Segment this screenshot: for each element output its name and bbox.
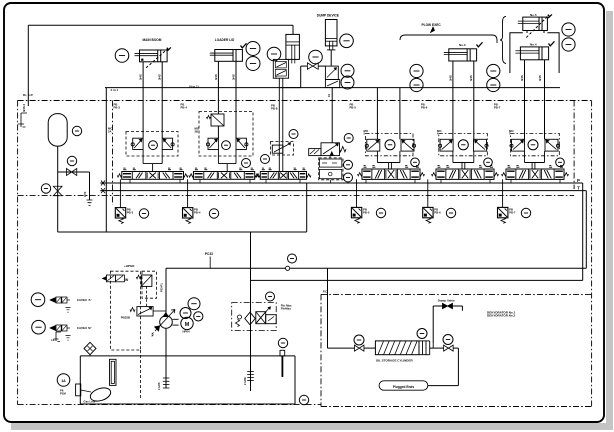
svg-text:3/4S: 3/4S [469, 75, 473, 81]
assembly A2 counterbalance [199, 112, 253, 157]
label PB33B [121, 316, 130, 320]
valve V3 directional [256, 168, 311, 179]
balloon CAVEX A [31, 293, 45, 307]
wire VA feed down [279, 78, 283, 171]
assembly A1 counterbalance [126, 132, 178, 157]
svg-text:PB-3: PB-3 [127, 210, 134, 214]
svg-text:PB-7: PB-7 [494, 105, 501, 109]
wire feed to valve B3 [328, 347, 355, 349]
wire PB-7 feed [502, 179, 504, 207]
wire relief to pump line [153, 310, 166, 312]
label suction rotated [157, 382, 161, 390]
reservoir tank [80, 356, 295, 404]
label 4in1 b [189, 85, 199, 89]
valve PB-7 solenoid [498, 207, 508, 223]
port label PB pair x181 [181, 103, 188, 110]
balloon 1 left of CYL1 [115, 49, 129, 63]
label A1 [108, 127, 113, 134]
wire valve stub 8 [440, 179, 442, 183]
wire manifold top line [105, 87, 560, 89]
balloon right of A4 top [344, 134, 353, 143]
cylinder VCB dump device [325, 20, 337, 50]
label DUMP DEVICE [317, 14, 339, 18]
svg-text:PB-5: PB-5 [350, 105, 357, 109]
boundary vertical x574 dash-dot [573, 101, 575, 190]
wire VCB rod down [330, 50, 332, 66]
balloon near V2 [242, 159, 251, 168]
cartridge valve HPGR [102, 275, 129, 282]
svg-text:M: M [185, 322, 190, 328]
port label PB pair x421 [421, 103, 428, 110]
svg-text:3/4S: 3/4S [520, 75, 524, 81]
wire CYL3 port B [473, 61, 475, 139]
cylinder CYL2 loader lid [210, 50, 243, 62]
tank wall port [76, 384, 81, 396]
valve bowtie B2 on vertical [53, 186, 62, 196]
dashed drain into tank [140, 350, 142, 399]
svg-text:3/4S: 3/4S [158, 74, 162, 80]
wire valve stub 10 [510, 179, 512, 183]
breather diamond [84, 342, 96, 354]
balloon pair right of CYL3 a [487, 64, 500, 77]
valve bowtie B3 [354, 345, 364, 351]
balloon above node [288, 254, 297, 263]
dehydrator DH1 [375, 341, 429, 355]
wire top supply line [28, 24, 293, 26]
wire CYL1 port A [142, 62, 144, 138]
drop shadow bottom [11, 423, 606, 430]
wire CYL4 port B [544, 60, 546, 140]
label 1S rotated VA [274, 76, 278, 79]
balloon PB-5 [376, 208, 385, 217]
wire pump suction [165, 328, 167, 388]
wire CYL3 port A [452, 61, 454, 139]
label 3/4S left rotated [22, 103, 26, 112]
svg-text:4 in 1: 4 in 1 [111, 88, 119, 92]
svg-text:LOADER LID: LOADER LID [215, 38, 235, 42]
valve V1 directional [117, 168, 188, 179]
balloon left of valve block VA [267, 47, 281, 61]
balloon pair right of CYL2 b [246, 57, 260, 71]
drop shadow right [606, 11, 613, 430]
wire valve stub 7 [414, 179, 416, 183]
node gauge port circle [286, 266, 290, 270]
svg-text:Dr. E.P.: Dr. E.P. [23, 93, 33, 97]
label Dr E.P. [23, 93, 33, 97]
cylinder CYL1 main boom [135, 50, 168, 62]
balloon right of A4 a [344, 160, 353, 169]
valve PB-5 solenoid [351, 207, 361, 223]
svg-text:(4 in 1): (4 in 1) [189, 85, 199, 89]
svg-text:PB-7: PB-7 [509, 210, 516, 214]
label P6 P1M [60, 389, 66, 396]
svg-text:No.3: No.3 [459, 43, 466, 47]
label A5 [364, 129, 369, 136]
svg-text:PB-6: PB-6 [421, 105, 428, 109]
filter F2 double rect [110, 359, 117, 385]
wire valve stub 5 [299, 179, 301, 183]
wire plow feed A [376, 88, 378, 140]
wire valve stub 9 [489, 179, 491, 183]
wire drain drop [89, 172, 91, 200]
svg-text:DUMP DEVICE: DUMP DEVICE [317, 14, 339, 18]
balloon right of A4 b [344, 173, 353, 182]
balloon tank right [299, 395, 308, 404]
suction diffuser ticks [163, 378, 170, 388]
wire PC33 main line [166, 267, 586, 269]
balloon right of VB upper [341, 64, 354, 77]
svg-text:Gas Line: Gas Line [83, 400, 95, 404]
label LOADER LID [215, 38, 235, 42]
pump coupling [173, 319, 179, 325]
svg-text:2B: 2B [195, 129, 199, 133]
valve bowtie shutoff B1 [66, 169, 76, 176]
port label PB pair x349 [350, 103, 357, 110]
pilot check valve on CYL2 port A [207, 114, 225, 126]
balloon pair right of group a [562, 23, 575, 36]
label No.4 [530, 42, 537, 46]
label Gas Line [83, 400, 95, 404]
check arrow CYL2 [241, 43, 247, 48]
dash-dot box dehydrator bottom [321, 406, 592, 408]
check arrow CYL3 [477, 42, 483, 47]
svg-text:P: P [577, 178, 580, 183]
balloon above DH1 [417, 329, 427, 339]
svg-text:MAIN BOOM: MAIN BOOM [143, 38, 162, 42]
wire return drop x250 [250, 232, 252, 391]
balloon pair right of CYL3 b [487, 78, 500, 91]
wire valve stub 1 [179, 179, 181, 183]
wire valve stub 6 [365, 179, 367, 183]
wire valve stub 4 [265, 179, 267, 183]
label CAVEX B [77, 326, 92, 330]
wire T rail drop [585, 191, 587, 269]
label 3/4S port A3 [448, 75, 452, 81]
callout bracket plow [400, 27, 497, 43]
balloon above B3 [354, 335, 364, 345]
svg-text:PB-4: PB-4 [194, 210, 201, 214]
label PB-7 [509, 208, 516, 215]
balloon right of ACC1 [72, 126, 81, 135]
wire V4 stem [329, 156, 331, 158]
assembly A5 counterbalance [365, 133, 415, 155]
label PB-3 [127, 208, 134, 215]
balloon above filter [266, 292, 275, 301]
balloon CAVEX B [32, 320, 46, 334]
accumulator ACC1 [48, 114, 67, 147]
wire PB-4 feed [187, 179, 189, 207]
wire DH1 to valve B4 [430, 347, 444, 349]
wire CYL4 port A [524, 60, 526, 140]
balloon level gauge [278, 338, 287, 347]
wire PB-3 feed [119, 179, 121, 207]
svg-text:P33-P1: P33-P1 [160, 283, 164, 292]
pump suction arrow [152, 326, 160, 337]
wire dump valve right [453, 306, 463, 311]
wire left inner vertical [27, 25, 29, 106]
svg-text:+HPGR: +HPGR [124, 264, 135, 268]
label No.3 [459, 43, 466, 47]
label 3/4S port B1 [158, 74, 162, 80]
wire P line lower [251, 279, 583, 281]
drain bracket mid [87, 200, 93, 205]
dashed box HPGR [142, 271, 157, 298]
wire valve stub 11 [559, 179, 561, 183]
wire pump riser [165, 268, 167, 315]
label DEHYDRATOR [487, 311, 516, 318]
label 3/4S port B4 [538, 75, 542, 81]
rail start tick T [101, 188, 105, 193]
wire CYL5 stub B [543, 31, 545, 34]
label P.C. [323, 290, 328, 294]
svg-text:1S: 1S [274, 76, 278, 79]
check arrow CYL4 [549, 41, 555, 46]
label 3/4S port A4 [520, 75, 524, 81]
svg-text:No.4: No.4 [530, 42, 537, 46]
port label PB pair x115 [114, 103, 121, 110]
test point CAVEX A [50, 297, 70, 303]
dash-dot box dehydrator top [321, 293, 592, 295]
label return rotated [243, 377, 247, 385]
cylinder CYL4 [515, 47, 548, 60]
balloon near V5 [411, 158, 420, 167]
label Fltr Max [281, 304, 292, 311]
wire P rail [100, 182, 582, 184]
svg-text:CAVEX 'A': CAVEX 'A' [77, 298, 92, 302]
wire V5 T-bar [377, 151, 400, 169]
arrow diagonal through CYL1 [141, 47, 171, 67]
wire V1 T-bar [143, 150, 162, 172]
enclosure boundary left dash-dot [17, 101, 19, 405]
label PB-5 [363, 208, 370, 215]
gauge circle 1A [57, 374, 70, 387]
balloon above shutoff bowtie [309, 50, 323, 64]
valve V2 directional [189, 168, 259, 179]
test point CAVEX B [50, 325, 70, 331]
bracket LE [51, 332, 61, 342]
balloon pair left of CYL3 b [410, 78, 423, 91]
rail start tick P [101, 181, 105, 186]
wire V7 T-bar [525, 151, 545, 169]
valve HPGR square [136, 275, 152, 286]
svg-text:3/4S: 3/4S [83, 191, 87, 197]
dashed box relief [111, 271, 141, 350]
cylinder CYL3 [444, 49, 477, 61]
wire jog VA to bowtie [281, 66, 308, 88]
balloon pump c [194, 312, 203, 321]
svg-text:3/4S: 3/4S [538, 75, 542, 81]
filter outlet box [266, 315, 277, 324]
wire valve stub 2 [199, 179, 201, 183]
valve PB-4 solenoid [183, 208, 193, 224]
wire V2 T-bar [218, 150, 236, 172]
wire A4 box stub [330, 180, 332, 183]
drain bracket CAVEX B [66, 335, 71, 340]
balloon PB-7 [521, 208, 530, 217]
label P [577, 178, 580, 183]
wire valve stub 0 [129, 179, 131, 183]
level gauge [280, 350, 285, 377]
wire PB-5 feed [356, 179, 358, 207]
svg-text:PB33B: PB33B [121, 316, 130, 320]
balloon pump a [188, 298, 200, 310]
label P33 rotated [160, 283, 164, 292]
shutoff valve bowtie top [307, 63, 318, 70]
label CAVEX A [77, 298, 92, 302]
svg-text:2 1/2R: 2 1/2R [243, 377, 247, 385]
balloon PB-4 [209, 209, 218, 218]
wire plow feed B [399, 88, 401, 140]
balloon right of VB lower [341, 76, 354, 89]
wire B3 to dehydrator [364, 347, 376, 349]
label Dump Valve [438, 298, 455, 302]
node circle filter [238, 315, 242, 319]
balloon near V7 [556, 158, 565, 167]
wire P elbow riser [306, 183, 308, 232]
wire CYL2 port A lower [217, 126, 219, 138]
balloon right of VCB [340, 34, 354, 48]
svg-text:PLOW EXEC: PLOW EXEC [422, 23, 442, 27]
label +HPGR [124, 264, 135, 268]
label A6 [437, 129, 442, 136]
balloon PB-6 [446, 208, 455, 217]
balloon pump b [180, 308, 191, 319]
wire PB-6 feed [427, 179, 429, 207]
label 3/4S port B3 [469, 75, 473, 81]
valve V6 directional [432, 166, 499, 180]
label 3/4S port A2 [214, 74, 218, 80]
wire bowtie to block B [318, 65, 325, 67]
assembly A6 counterbalance [439, 133, 489, 155]
svg-text:Dump Valve: Dump Valve [438, 298, 455, 302]
port label PB pair x494 [494, 103, 501, 110]
svg-text:LE: LE [51, 338, 55, 342]
valve block VB lower [325, 80, 339, 88]
balloon pair left of CYL3 a [410, 64, 423, 77]
label PC33 [205, 252, 213, 256]
wire drop to vertical cylinder A [292, 25, 294, 34]
balloon above A3 [289, 130, 298, 139]
svg-text:3/4S: 3/4S [448, 75, 452, 81]
svg-text:3/4S: 3/4S [231, 74, 235, 80]
label drain rotated [83, 191, 87, 197]
label No.5 [530, 13, 537, 17]
wire branch to drain [58, 171, 90, 173]
drain bracket CAVEX A [66, 307, 71, 312]
label PB-6 [434, 208, 441, 215]
valve V4 spool [309, 143, 346, 156]
label PLOW EXEC [422, 23, 442, 27]
return diffuser ticks [247, 372, 254, 381]
wire CYL2 port A [217, 61, 219, 114]
svg-text:3/4S 2: 3/4S 2 [22, 103, 26, 112]
balloon near V6 [484, 158, 493, 167]
capsule Plugged Ends [379, 381, 428, 390]
balloon pair right of group b [562, 38, 575, 51]
svg-text:CAVEX 'B': CAVEX 'B' [77, 326, 92, 330]
balloon PB-3 [139, 209, 148, 218]
balloon above B4 [443, 335, 453, 345]
svg-text:1A: 1A [61, 379, 66, 383]
wire ACC1 down [57, 146, 59, 232]
arrow diagonal through CYL5 [526, 14, 552, 37]
balloon pair right of CYL2 a [246, 42, 260, 56]
valve V5 directional [358, 166, 425, 180]
valve PB-6 solenoid [423, 207, 433, 223]
svg-text:P1M: P1M [60, 391, 66, 395]
label HP04 [183, 330, 190, 334]
balloon left of A3 [261, 155, 270, 164]
motor M1 [181, 317, 193, 329]
svg-text:2A: 2A [108, 129, 112, 133]
suction strainer oval [81, 386, 113, 404]
balloon left of B2 [41, 184, 50, 193]
box around CYL4 [510, 33, 559, 73]
relief valve RV1 [130, 307, 153, 316]
svg-text:3/4S: 3/4S [139, 74, 143, 80]
boundary bottom-left dash-dot [18, 404, 321, 406]
wire T rail [100, 190, 586, 192]
svg-text:T: T [577, 186, 580, 191]
valve block VA [273, 59, 288, 78]
enclosure boundary mid dash-dot [18, 195, 575, 197]
cylinder VCA vertical [286, 34, 300, 63]
label 3/4S port B2 [231, 74, 235, 80]
balloon above B1 [67, 156, 76, 165]
wire manifold left vertical [105, 88, 107, 232]
label OIL STORAGE [376, 359, 414, 363]
wire P rail drop [582, 183, 584, 280]
pump P1 variable [155, 310, 175, 332]
svg-text:PC33: PC33 [205, 252, 213, 256]
label MAIN BOOM [143, 38, 162, 42]
svg-text:FltrMax: FltrMax [281, 306, 291, 310]
dash-dot box filter [232, 303, 277, 331]
wire CYL1 port B [161, 62, 163, 138]
drain bracket left [18, 113, 27, 127]
label 1S rotated VB [327, 94, 331, 97]
svg-text:1S: 1S [327, 94, 331, 97]
svg-text:2 1/2S: 2 1/2S [157, 382, 161, 390]
wire CYL5 stub A [526, 31, 528, 34]
enclosure boundary top dash-dot [18, 100, 592, 102]
label A2 [195, 127, 200, 134]
svg-text:Plugged Ends: Plugged Ends [393, 385, 414, 389]
filter bypass valve [256, 307, 271, 324]
brace left of cyl group [500, 16, 506, 63]
label A7 [509, 129, 514, 136]
valve block VB upper [325, 66, 338, 79]
wire PC33 label tick [209, 257, 211, 269]
filter spring [236, 320, 240, 327]
svg-text:PB-4: PB-4 [181, 105, 188, 109]
wire dump valve left [433, 306, 442, 348]
assembly A7 counterbalance [510, 133, 560, 155]
label T [577, 186, 580, 191]
wire valve stub 3 [249, 179, 251, 183]
valve dump bowtie [443, 303, 453, 308]
svg-text:OIL STORAGE CYLINDER: OIL STORAGE CYLINDER [376, 359, 414, 363]
boundary vertical x112 dash-dot [112, 101, 114, 206]
svg-text:HP04: HP04 [183, 330, 190, 334]
wire VB down [331, 88, 333, 143]
label 4 in 1 [111, 88, 119, 92]
wire V6 T-bar [453, 151, 474, 169]
wire CYL2 port B [235, 61, 237, 138]
valve bowtie B4 [444, 345, 454, 351]
port label PB pair x271 [271, 104, 278, 111]
assembly A3 small valve [271, 142, 294, 156]
